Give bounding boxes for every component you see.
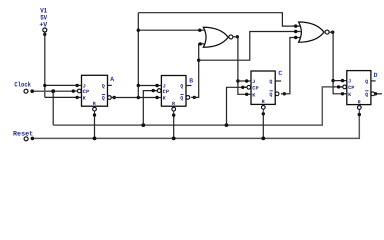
Reset terminal [13, 130, 33, 141]
node K pin U1 [76, 96, 79, 99]
node J pin U2 [155, 84, 158, 87]
node junction Qbar U2 branch [197, 59, 200, 62]
node NOR2 input 1 dot [294, 24, 297, 27]
node reset rail junction C [261, 137, 265, 141]
svg-text:B: B [189, 77, 193, 84]
node CP pin U2 [152, 89, 155, 92]
node R pin U4 [358, 113, 361, 116]
node reset rail junction A [93, 137, 97, 141]
svg-text:K: K [83, 96, 86, 102]
svg-text:Q: Q [269, 79, 272, 85]
node junction clock branch [51, 89, 55, 93]
node Qbar pin U4 [374, 92, 377, 95]
node NOR1 input 1 [198, 29, 201, 32]
node K pin U3 [245, 93, 248, 96]
wire top rail to NOR2 input 1 [138, 13, 300, 26]
node R pin U3 [262, 112, 265, 115]
wire R of U2 to reset rail [173, 115, 175, 138]
wire Clock to CP of U1 [32, 90, 73, 92]
node NOR2 output [331, 31, 334, 34]
node Reset terminal dot [31, 137, 35, 141]
wire branch Qbar U2 to NOR2 input 2 [199, 32, 301, 61]
svg-text:J: J [348, 79, 351, 85]
svg-text:C: C [278, 70, 282, 77]
node junction top rail / NOR1 input 1 [137, 29, 140, 32]
wire R of U1 to reset rail [94, 115, 96, 138]
wire clock down to clock rail [52, 91, 54, 125]
node CP pin U1 [72, 89, 75, 92]
wire reset rail [32, 115, 359, 139]
svg-text:R: R [172, 101, 175, 107]
node Clock terminal dot [30, 89, 34, 93]
wire riser Qbar U1 to top rail [137, 13, 139, 98]
node NOR2 input 3 [294, 36, 297, 39]
svg-text:Q: Q [102, 83, 105, 89]
node K pin U4 [341, 92, 344, 95]
NOR gate G1 [203, 27, 233, 47]
svg-text:CP: CP [252, 86, 258, 92]
node junction NOR1 out / J of U3 [236, 79, 239, 82]
svg-text:R: R [262, 99, 265, 105]
svg-text:K: K [163, 96, 166, 102]
wire NOR1 output down to J/K of U3 [233, 37, 247, 95]
JK flip-flop U1 (A) [75, 75, 114, 115]
wire branch to NOR1 input 1 [138, 29, 205, 31]
node Qbar pin U1 [113, 96, 116, 99]
wire clock tap up to CP of U3 [227, 87, 248, 125]
JK flip-flop U4 (D) [340, 71, 377, 115]
svg-text:Reset: Reset [13, 130, 33, 138]
node R pin U2 [172, 113, 175, 116]
svg-text:Q: Q [180, 84, 183, 90]
node Qbar pin U2 [193, 96, 196, 99]
node junction +V / J wire [43, 84, 46, 87]
svg-text:CP: CP [83, 89, 89, 95]
wire Qbar U1 to K of U2 [111, 97, 157, 99]
node J pin U4 [341, 79, 344, 82]
wire +V to K of U1 [45, 96, 77, 98]
wire +V rail down to J/K of U1 [44, 32, 46, 97]
svg-text:R: R [93, 101, 96, 107]
svg-text:Q: Q [365, 79, 368, 85]
svg-text:D: D [374, 72, 378, 79]
svg-text:K: K [348, 92, 351, 98]
JK flip-flop U2 (B) [155, 76, 193, 116]
power source V1 +V terminal [39, 7, 48, 36]
JK flip-flop U3 (C) [245, 70, 283, 114]
wire Qbar U2 right and up to NOR1 input 2 [191, 44, 205, 98]
svg-text:J: J [252, 79, 255, 85]
svg-text:CP: CP [348, 85, 354, 91]
svg-text:Clock: Clock [14, 82, 31, 90]
wire clock rail [53, 87, 343, 125]
node R pin U1 [93, 113, 96, 116]
wire branch to J of U2 [138, 85, 157, 87]
svg-text:Q: Q [269, 92, 272, 98]
node NOR1 output [236, 35, 239, 38]
svg-text:Q: Q [102, 96, 105, 102]
node clock rail tap B [141, 123, 145, 127]
node junction Qbar U1 riser [137, 96, 140, 99]
svg-text:CP: CP [163, 89, 169, 95]
node junction NOR2 out / J of U4 [331, 79, 334, 82]
wire +V to J of U1 [45, 84, 77, 86]
svg-text:R: R [358, 99, 361, 105]
svg-text:K: K [252, 93, 255, 99]
node clock rail tap C [225, 123, 229, 127]
node CP pin U4 [337, 85, 340, 88]
svg-text:Q: Q [365, 92, 368, 98]
wire branch to J of U4 [333, 80, 342, 82]
NOR gate G2 [299, 22, 330, 42]
wire R of U3 to reset rail [262, 114, 264, 139]
node CP pin U3 [241, 86, 244, 89]
wire branch to J of U3 [238, 80, 247, 82]
node NOR2 input 2 [294, 30, 297, 33]
node NOR1 input 2 [199, 42, 202, 45]
svg-text:Q: Q [180, 96, 183, 102]
wire Qbar U3 up to NOR2 input 3 [281, 38, 301, 94]
wire Qbar U4 stub [375, 93, 382, 95]
node J pin U1 [76, 84, 79, 87]
node Qbar pin U3 [283, 92, 286, 95]
wire NOR2 output down to J/K of U4 [329, 32, 342, 94]
Clock terminal [14, 82, 31, 94]
node J pin U3 [245, 79, 248, 82]
node junction riser / J of U2 [137, 84, 140, 87]
svg-text:A: A [110, 76, 114, 83]
wire clock tap up to CP of U2 [143, 91, 157, 126]
node reset rail junction B [172, 137, 176, 141]
node K pin U2 [155, 96, 158, 99]
